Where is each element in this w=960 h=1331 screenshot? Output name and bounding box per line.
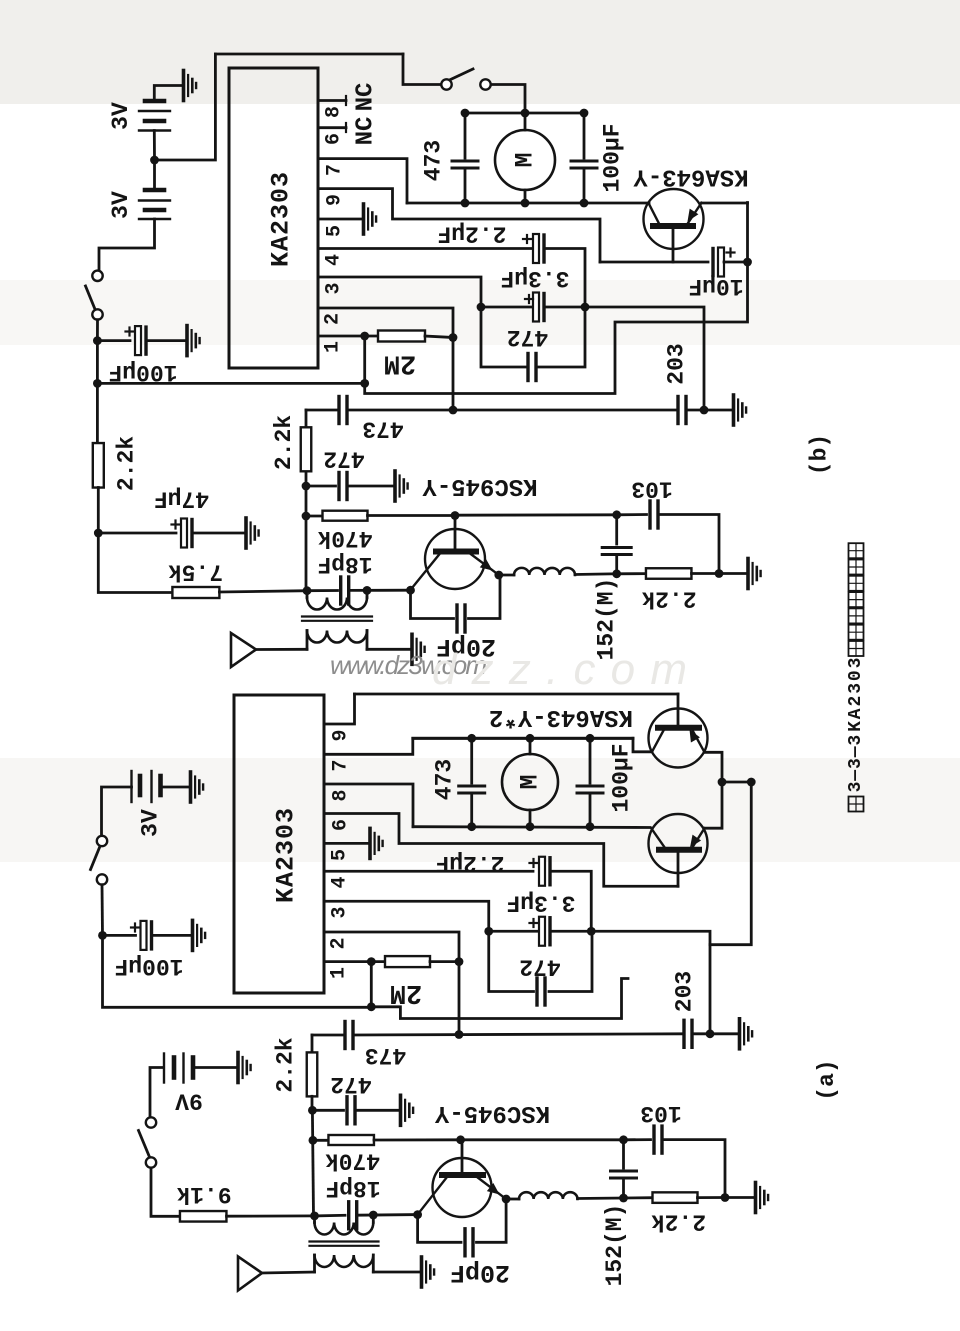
wire node down to feedback node (b) xyxy=(96,341,99,384)
transformer T2 secondary (a) xyxy=(315,1255,374,1267)
svg-text:—: — xyxy=(846,770,866,782)
wire 100uF-node to feedback node (b) xyxy=(97,382,364,385)
svg-text:3V: 3V xyxy=(108,191,134,219)
wire 472 loop left (a) xyxy=(489,931,534,991)
capacitor 203 (a) xyxy=(682,1020,685,1047)
capacitor 473 motor (a) xyxy=(459,785,485,788)
svg-text:(b): (b) xyxy=(807,434,833,475)
transistor Q5 base lead (a) xyxy=(461,1140,464,1175)
capacitor 473 (b) feedback xyxy=(337,397,340,424)
node feedback left (b) xyxy=(93,379,102,388)
wire 20pF loop (a) xyxy=(418,1215,461,1243)
wire motor bottom rail (b) xyxy=(407,202,649,205)
capacitor 473 motor (b) xyxy=(452,160,478,163)
wire 2.2k mid bottom lead (b) xyxy=(305,471,308,486)
wire node to 100uF (b) xyxy=(97,339,130,342)
svg-text:472: 472 xyxy=(519,954,560,980)
node emitter E (a) xyxy=(502,1195,511,1204)
node 47uF (b) xyxy=(94,529,103,538)
svg-text:7: 7 xyxy=(330,759,353,771)
node B transformer right (b) xyxy=(363,586,372,595)
wire 3V battery left corner (a) xyxy=(102,787,132,836)
wire capD to F (a) xyxy=(622,1178,625,1198)
resistor 470k (b) xyxy=(323,511,368,521)
wire 472 loop left (b) xyxy=(481,307,528,367)
wire col down (a) xyxy=(312,1110,313,1216)
pin 3 stub (a) xyxy=(324,901,489,931)
wire 3V battery to ground (a) xyxy=(161,786,189,789)
switch S1 (b) xyxy=(441,79,451,89)
svg-text:2.2k: 2.2k xyxy=(271,415,297,470)
wire 100uF top lead (a) xyxy=(589,738,592,783)
capacitor unlabeled (b) xyxy=(602,546,631,549)
node A transformer (a) xyxy=(310,1212,319,1221)
ground at 472b2 (b) xyxy=(395,471,408,501)
node 203 right (b) xyxy=(700,406,709,415)
svg-text:5: 5 xyxy=(329,849,352,861)
wire 100uF bottom lead (a) xyxy=(589,793,592,827)
node F coil right (a) xyxy=(619,1194,628,1203)
wire motor stem bottom (b) xyxy=(524,190,527,203)
pin 3 stub (b) xyxy=(318,277,481,307)
transistor Q1 KSA643-Y circle (b) xyxy=(644,189,704,249)
wire 472 loop right (b) xyxy=(536,307,585,367)
svg-text:1: 1 xyxy=(328,967,351,979)
node D (b) xyxy=(612,510,621,519)
capacitor 100uF left (b) polarized xyxy=(135,326,141,355)
transistor Q5 collector (a) xyxy=(418,1177,447,1215)
wire 2M to pin2 vertical (b) xyxy=(425,336,453,338)
svg-text:NC: NC xyxy=(353,117,380,146)
ground at 203 (a) xyxy=(740,1019,753,1049)
svg-text:9.1k: 9.1k xyxy=(176,1181,231,1207)
svg-text:473: 473 xyxy=(362,416,403,442)
wire node to ground (a) xyxy=(725,1196,754,1199)
transistor Q2 base bar (b) xyxy=(436,549,476,555)
wire switch S3 to node (a) xyxy=(101,885,104,936)
node emitter E (b) xyxy=(494,571,503,580)
transformer T1 primary (b) xyxy=(307,598,367,610)
wire 473 top lead (b) xyxy=(464,113,467,158)
svg-text:KSC945-Y: KSC945-Y xyxy=(434,1099,550,1126)
node A transformer (b) xyxy=(303,586,312,595)
wire emitter to corner (b) xyxy=(702,202,748,205)
pin 2 stub and vertical (b) xyxy=(318,308,453,410)
capacitor 472 (a) loop xyxy=(535,978,538,1005)
wire 18pF line right (a) xyxy=(357,1213,418,1216)
switch S4 (a) xyxy=(146,1117,156,1127)
node pin2 bottom (a) xyxy=(455,1030,464,1039)
wire capD to F (b) xyxy=(615,555,618,574)
wire bottom line mid (b) xyxy=(347,409,678,412)
wire 3.3uF row left (b) xyxy=(481,306,534,309)
svg-text:3V: 3V xyxy=(138,809,164,837)
capacitor 10uF (b) polarized xyxy=(718,248,724,277)
node feedback (a) xyxy=(367,1002,376,1011)
transistor Q1 collector (b) xyxy=(649,203,662,228)
inductor 152(M) coil (b) xyxy=(514,568,575,575)
resistor 2M (a) xyxy=(385,956,430,967)
svg-text:2.2k: 2.2k xyxy=(651,1209,706,1235)
ground at 47uF (b) xyxy=(246,518,259,548)
caption text (rotated) xyxy=(849,797,864,812)
wire bottom line left (b) xyxy=(306,409,339,412)
wire 18pF line right (b) xyxy=(349,589,411,592)
svg-text:18pF: 18pF xyxy=(317,551,372,577)
capacitor 47uF (b) polarized xyxy=(181,519,187,548)
capacitor 2.2uF (a) polarized xyxy=(539,857,545,886)
resistor 470k (a) xyxy=(328,1135,374,1145)
svg-text:100μF: 100μF xyxy=(114,953,183,979)
pin 6 stub and wire to Q4 base (a) xyxy=(324,814,678,887)
capacitor 473 (a) feedback xyxy=(343,1022,346,1049)
wire base node to D node (b) xyxy=(455,513,617,516)
wire node down to 7.5k line (b) xyxy=(98,533,172,593)
ground at 203 (b) xyxy=(734,395,747,425)
svg-text:4: 4 xyxy=(329,876,352,888)
transistor Q5 base bar (a) xyxy=(442,1172,483,1178)
capacitor 100uF left (a) polarized xyxy=(141,921,147,950)
svg-text:KSA643-Y*2: KSA643-Y*2 xyxy=(489,703,633,730)
wire 103 to corner down (a) xyxy=(662,1140,725,1198)
node pin1-2M left (a) xyxy=(367,957,376,966)
node B transformer right (a) xyxy=(369,1211,378,1220)
node between batteries (b) xyxy=(150,156,159,165)
svg-text:5: 5 xyxy=(324,225,347,237)
wire motor top line (a) xyxy=(413,737,633,740)
node 203 right (a) xyxy=(706,1029,715,1038)
ground at pin 5 (a) xyxy=(370,828,383,858)
svg-text:100μF: 100μF xyxy=(609,743,635,812)
capacitor 20pF (a) xyxy=(463,1229,466,1256)
resistor 2.2k b2 xyxy=(646,568,692,579)
svg-text:9: 9 xyxy=(330,729,353,741)
pin 7 stub and wire to motor rail (b) xyxy=(318,159,407,203)
wire 470k left lead (a) xyxy=(313,1139,329,1142)
svg-text:7: 7 xyxy=(324,164,347,176)
transistor Q3 base lead (a) xyxy=(677,694,680,728)
ground at 100uF left (a) xyxy=(193,920,206,950)
svg-text:2.2k: 2.2k xyxy=(641,586,696,612)
svg-text:472: 472 xyxy=(507,324,548,350)
svg-text:8: 8 xyxy=(330,789,353,801)
capacitor 103 (b) xyxy=(648,501,651,528)
transistor Q2 KSC945-Y circle (b) xyxy=(425,529,485,589)
svg-text:8: 8 xyxy=(323,106,346,118)
wire 9V switch to 9.1k (a) xyxy=(151,1168,180,1217)
node pin1-2M left (b) xyxy=(360,332,369,341)
svg-text:47μF: 47μF xyxy=(154,485,209,511)
wire 3.3uF row right (b) xyxy=(546,306,585,309)
wire motor bottom rail (a) xyxy=(413,825,650,829)
node collector (b) xyxy=(406,586,415,595)
ground at 9V (a) xyxy=(238,1053,251,1083)
svg-text:3.3μF: 3.3μF xyxy=(506,890,575,916)
node 472b2 (b) xyxy=(302,482,311,491)
wire bottom line right (a) xyxy=(692,1032,738,1035)
svg-text:2M: 2M xyxy=(390,977,422,1007)
svg-text:1: 1 xyxy=(322,341,345,353)
node 473 bottom (b) xyxy=(461,199,470,208)
wire 47uF to ground (b) xyxy=(194,532,244,535)
pin 8 stub (a) xyxy=(324,784,413,827)
wire coil to node F (b) xyxy=(575,572,617,576)
wire bottom line right (b) xyxy=(686,409,732,412)
node 3.3uF left (a) xyxy=(484,927,493,936)
pin 9 stub and wire (b) xyxy=(318,189,600,262)
wire F to 2.2k a2 (a) xyxy=(624,1196,653,1199)
transistor Q4 KSA643 bottom circle (a) xyxy=(649,814,708,873)
svg-text:2.2μF: 2.2μF xyxy=(437,221,506,247)
svg-text:2: 2 xyxy=(328,937,351,949)
pin 7 stub (a) xyxy=(324,738,633,754)
svg-text:NC: NC xyxy=(353,83,380,112)
transformer T1 secondary right lead (b) xyxy=(366,631,369,650)
wire 103 lead (a) xyxy=(624,1138,651,1141)
battery B4 9V (a) xyxy=(163,1054,165,1083)
svg-text:473: 473 xyxy=(421,140,447,181)
wire 100uF top lead (b) xyxy=(583,113,586,158)
svg-text:K: K xyxy=(846,721,866,732)
transistor Q1 emitter (b) xyxy=(685,203,702,228)
node 473 top (a) xyxy=(467,734,476,743)
svg-text:3: 3 xyxy=(846,735,866,746)
wire 3.3uF row right (a) xyxy=(552,930,591,933)
pin 4 stub (b) xyxy=(318,247,534,250)
wire emitters to vertical (a) xyxy=(722,781,751,784)
ground at 2.2k a2 (a) xyxy=(756,1183,769,1213)
wire 20pF to emitter (a) xyxy=(477,1199,507,1242)
wire secondary to antenna (a) xyxy=(262,1272,315,1273)
wire 18pF line left (a) xyxy=(315,1214,346,1217)
node 100uF bottom (b) xyxy=(580,199,589,208)
capacitor 2.2uF (b) polarized xyxy=(533,234,539,263)
transistor Q4 base bar (a) xyxy=(659,847,699,853)
svg-text:10μF: 10μF xyxy=(688,273,743,299)
capacitor 18pF (a) xyxy=(347,1202,350,1229)
capacitor 18pF (b) xyxy=(339,577,342,604)
ground at 472a2 (a) xyxy=(401,1095,414,1125)
wire 2.2k to node (b) xyxy=(692,572,720,575)
node 10uF emitter vertical (b) xyxy=(743,258,752,267)
node 473 bottom (a) xyxy=(467,822,476,831)
resistor 2.2k mid vertical (b) xyxy=(301,427,312,471)
node 103/2.2k right (b) xyxy=(715,569,724,578)
svg-text:www.dz3w.com: www.dz3w.com xyxy=(330,650,487,680)
node KSC945 base (a) xyxy=(456,1135,465,1144)
wire 2.2k a2 to node (a) xyxy=(698,1196,726,1199)
node 100uF left (a) xyxy=(98,931,107,940)
transistor Q3 collector (a) xyxy=(652,730,664,752)
svg-text:2.2μF: 2.2μF xyxy=(435,850,504,876)
transistor Q1 base bar (b) xyxy=(653,223,693,229)
svg-text:3: 3 xyxy=(846,758,866,769)
wire D to 103 (b) xyxy=(617,513,647,516)
wire D to capD (b) xyxy=(615,515,618,544)
node collector (a) xyxy=(413,1210,422,1219)
wire 2.2k top lead (a) xyxy=(311,1035,314,1053)
wire down to 2.2k (b) xyxy=(96,383,99,443)
node motor bottom (a) xyxy=(526,822,535,831)
transformer T1 primary right stem (b) xyxy=(366,590,369,597)
scan gray band top xyxy=(0,0,960,104)
scan gray band lower xyxy=(0,758,960,862)
svg-text:3: 3 xyxy=(323,282,346,294)
wire node to 100uF (a) xyxy=(103,934,136,937)
node feedback at pin1 line (b) xyxy=(360,379,369,388)
wire feedback emitter-to-pin1 (b) xyxy=(365,203,748,394)
wire node to top rail (b) xyxy=(155,54,216,160)
switch S3 (a) xyxy=(97,836,107,846)
wire 103 to corner down (b) xyxy=(658,515,719,574)
transistor Q2 collector (b) xyxy=(411,554,441,590)
svg-text:472: 472 xyxy=(323,446,364,472)
svg-text:9V: 9V xyxy=(175,1088,203,1114)
node 470k col (b) xyxy=(302,512,311,521)
svg-text:3: 3 xyxy=(846,683,866,694)
wire 100uF to ground (a) xyxy=(154,934,191,937)
svg-text:6: 6 xyxy=(323,133,346,145)
svg-text:473: 473 xyxy=(432,759,458,800)
wire node585 to 203 column (b) xyxy=(585,307,704,410)
wire 3.3uF row left (a) xyxy=(489,930,540,933)
svg-text:9: 9 xyxy=(324,194,347,206)
node capD top (a) xyxy=(619,1135,628,1144)
svg-text:A: A xyxy=(846,708,866,719)
resistor 2.2k a2 xyxy=(653,1192,698,1203)
node motor top (a) xyxy=(526,734,535,743)
capacitor 472 a2 xyxy=(345,1097,348,1124)
wire 470k to base node (b) xyxy=(368,514,456,517)
transformer T2 core (a) xyxy=(310,1240,379,1242)
svg-text:152(M): 152(M) xyxy=(602,1204,628,1287)
transformer T2 secondary right lead (a) xyxy=(372,1255,375,1272)
svg-text:2.2k: 2.2k xyxy=(273,1037,299,1092)
node KSC945 base (b) xyxy=(451,511,460,520)
wire 2.2k bottom lead (a) xyxy=(311,1096,314,1110)
antenna (b) xyxy=(231,633,256,667)
transistor Q3 emitter (a) xyxy=(692,730,705,753)
pin 9 stub (a) xyxy=(324,694,355,724)
node 100uF top (b) xyxy=(580,109,589,118)
svg-text:103: 103 xyxy=(631,476,672,502)
svg-text:0: 0 xyxy=(846,670,866,681)
capacitor 3.3uF (b) polarized xyxy=(533,293,539,322)
transformer T1 secondary (b) xyxy=(307,631,367,643)
node 2M right (a) xyxy=(455,957,464,966)
wire secondary to antenna (b) xyxy=(256,648,307,651)
wire 2.2k-mid top lead (b) xyxy=(305,410,308,428)
scan gray band mid xyxy=(0,280,960,345)
ground at secondary (a) xyxy=(422,1257,435,1287)
wire emitter to coil (a) xyxy=(506,1198,519,1201)
wire rail down to switch (b) xyxy=(403,54,441,85)
transistor Q1 base lead (b) xyxy=(672,226,675,262)
transistor Q3 KSA643 top circle (a) xyxy=(649,709,708,768)
wire 472a2 left (a) xyxy=(312,1109,343,1112)
resistor 2.2k left (b) xyxy=(93,443,104,488)
battery B3 3V (a) xyxy=(130,771,132,802)
node 473 top (b) xyxy=(461,109,470,118)
svg-text:20pF: 20pF xyxy=(450,1258,510,1287)
wire 2.2k to 47uF node (b) xyxy=(97,488,100,534)
wire 100uF-node to feedback (a) xyxy=(103,935,372,1007)
svg-text:472: 472 xyxy=(330,1071,371,1097)
transformer T2 primary left stem (a) xyxy=(313,1216,316,1223)
pin 5 stub (b) xyxy=(318,218,362,221)
wire 473 bottom lead (a) xyxy=(470,793,473,827)
transistor Q2 base lead (b) xyxy=(454,516,457,552)
ground at secondary (b) xyxy=(412,634,425,664)
transistor Q3 base bar (a) xyxy=(658,725,699,731)
wire 9V to ground (a) xyxy=(193,1066,236,1069)
wire col down 486-590 (b) xyxy=(305,486,308,591)
transformer T1 secondary left lead (b) xyxy=(306,631,309,650)
transistor Q4 collector (a) xyxy=(651,828,665,848)
svg-text:473: 473 xyxy=(365,1042,406,1068)
node 2M right on pin2 vertical (b) xyxy=(449,333,458,342)
node 3.3uF right (b) xyxy=(581,303,590,312)
node emitters joined (a) xyxy=(718,778,727,787)
svg-text:2M: 2M xyxy=(384,348,416,378)
svg-text:KA2303: KA2303 xyxy=(267,171,296,267)
wire 9.1k to node A (a) xyxy=(227,1215,315,1218)
wire switch to motor node (b) xyxy=(491,85,525,114)
svg-text:470k: 470k xyxy=(317,525,372,551)
svg-text:100μF: 100μF xyxy=(600,123,626,192)
wire 470k left lead (b) xyxy=(306,515,323,518)
node motor bottom (b) xyxy=(521,199,530,208)
wire Qtop collector link (a) xyxy=(633,738,652,752)
motor M2 (a) xyxy=(502,754,558,810)
pin 1 stub (a) xyxy=(324,960,385,963)
inductor 152(M) coil (a) xyxy=(519,1192,578,1199)
node 100uF top (a) xyxy=(586,734,595,743)
wire 20pF loop (b) xyxy=(411,590,454,618)
wire switch S2 to node (b) xyxy=(96,320,99,341)
svg-text:—: — xyxy=(846,746,866,758)
wire 7.5k to transformer node A (b) xyxy=(219,591,307,592)
ground at 3V battery (a) xyxy=(191,772,204,802)
wire 473 bottom lead (b) xyxy=(464,168,467,203)
node pin2 vertical on bottom line (b) xyxy=(449,406,458,415)
wire base node to 103 node (a) xyxy=(461,1138,624,1141)
wire node to ground (b) xyxy=(719,572,747,575)
wire 473 top lead (a) xyxy=(470,738,473,783)
node 470k col (a) xyxy=(309,1136,318,1145)
svg-text:203: 203 xyxy=(672,971,698,1012)
wire node to 47uF (b) xyxy=(98,532,176,535)
svg-text:6: 6 xyxy=(330,819,353,831)
node 3.3uF right (a) xyxy=(587,927,596,936)
node 100uF left (b) xyxy=(93,336,102,345)
node motor top switch (b) xyxy=(521,109,530,118)
wire 472b2 left (b) xyxy=(306,485,336,488)
wire 10uF to emitter vertical (b) xyxy=(724,261,748,264)
wire battery B2 to switch (b) xyxy=(99,219,155,271)
wire secondary to ground (a) xyxy=(373,1271,420,1274)
wire motor stem top (b) xyxy=(524,113,527,130)
transistor Q4 base lead (a) xyxy=(677,850,680,887)
transistor Q4 emitter (a) xyxy=(692,828,705,848)
wire pin4 cap to col x585 (b) xyxy=(546,249,585,308)
ground at battery B1 (b) xyxy=(184,71,197,101)
wire 100uF bottom lead (b) xyxy=(583,168,586,203)
capacitor 203 (b) xyxy=(676,397,679,424)
transistor Q2 emitter (b) xyxy=(470,554,499,576)
node 103/2.2k right (a) xyxy=(721,1193,730,1202)
wire 2.2uF to col (a) xyxy=(552,871,591,931)
